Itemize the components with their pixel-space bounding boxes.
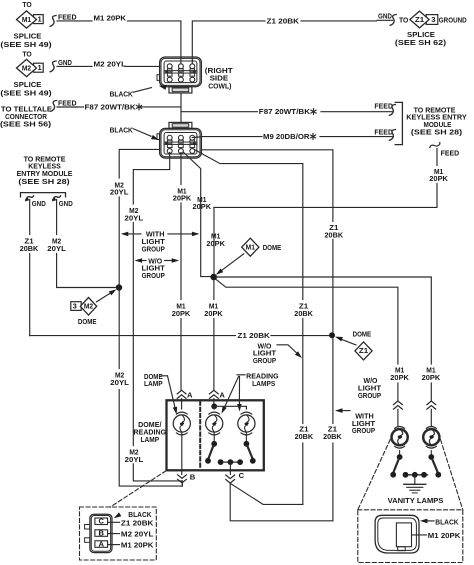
- 3-pin connector face: [90, 514, 112, 552]
- break A dome lamp: [177, 390, 186, 398]
- svg-text:LAMPS: LAMPS: [252, 379, 275, 388]
- wire Z1 cont2: [302, 319, 304, 424]
- svg-text:BLACK: BLACK: [435, 517, 459, 526]
- svg-text:GROUP: GROUP: [358, 391, 381, 400]
- wire M2 20YL pin to B: [133, 464, 182, 481]
- svg-text:20PK: 20PK: [193, 202, 212, 211]
- svg-text:DOME: DOME: [353, 329, 372, 338]
- wire M2 20YL conn2-left down: [119, 149, 159, 178]
- svg-text:20BK: 20BK: [323, 432, 342, 441]
- reference symbol M1 DOME: [242, 238, 259, 256]
- break C: [226, 475, 235, 483]
- svg-text:TO: TO: [399, 15, 408, 24]
- feed label M1 vanity: [430, 143, 440, 148]
- wire M2 20YL keyless-gnd down: [56, 200, 58, 235]
- wire M1 20PK into dome lamp: [180, 319, 182, 391]
- svg-text:M2 20YL: M2 20YL: [94, 59, 127, 68]
- svg-text:A: A: [98, 539, 104, 548]
- svg-text:DOME: DOME: [78, 317, 97, 326]
- svg-text:A: A: [219, 390, 225, 399]
- wire A into reading lamp: [213, 399, 215, 404]
- svg-text:(SEE SH 28): (SEE SH 28): [411, 128, 463, 137]
- wire Z1 cont: [332, 240, 334, 424]
- svg-text:LAMP: LAMP: [144, 379, 163, 388]
- svg-text:C: C: [98, 517, 104, 526]
- wire + break vanity right: [430, 383, 432, 401]
- wire C to Z1 right: [230, 483, 333, 521]
- label M1 20PK pin A: [108, 544, 120, 546]
- wire F87 20WT/BK* right: [181, 111, 258, 113]
- svg-text:20PK: 20PK: [390, 373, 409, 382]
- svg-text:BLACK: BLACK: [110, 89, 134, 98]
- svg-text:GND: GND: [58, 58, 72, 67]
- dashed pointer to connector detail: [110, 471, 166, 507]
- svg-text:GROUND: GROUND: [439, 15, 467, 24]
- break A reading lamps: [210, 390, 219, 398]
- wire Z1 20BK keyless-gnd down: [29, 200, 31, 235]
- label WITH LIGHT GROUP left: [123, 233, 141, 235]
- svg-text:20BK: 20BK: [20, 244, 39, 253]
- gnd label M2: [50, 61, 56, 72]
- svg-text:B: B: [98, 528, 104, 537]
- connector C1 6-pin (right side cowl): [160, 57, 202, 87]
- feed label M1: [50, 16, 56, 27]
- junction dot M2: [116, 284, 122, 290]
- svg-text:GROUP: GROUP: [352, 426, 375, 435]
- wire Z1 20BK top: [192, 21, 265, 64]
- wire F87 20WT/BK* left: [78, 106, 84, 108]
- junction dot M1: [210, 274, 217, 281]
- svg-text:M9 20DB/OR: M9 20DB/OR: [263, 132, 310, 141]
- pin A: [95, 541, 108, 548]
- svg-text:FEED: FEED: [374, 127, 393, 136]
- svg-text:20PK: 20PK: [173, 194, 192, 203]
- wire C to Z1 left: [230, 483, 303, 504]
- svg-text:FEED: FEED: [441, 148, 460, 157]
- svg-text:20BK: 20BK: [295, 432, 314, 441]
- svg-text:M1: M1: [22, 15, 32, 24]
- dome lamp L1: [173, 415, 190, 432]
- wire M1 20PK conn2 diag down: [183, 152, 210, 277]
- svg-text:20YL: 20YL: [125, 213, 144, 222]
- svg-text:3: 3: [431, 15, 435, 24]
- svg-text:(SEE SH 62): (SEE SH 62): [395, 38, 447, 47]
- dashed vanity enclosure: [358, 440, 390, 510]
- svg-text:A: A: [187, 390, 193, 399]
- vanity lamp right: [423, 429, 439, 445]
- vanity switch: [399, 451, 401, 455]
- svg-text:M1 20PK: M1 20PK: [94, 14, 127, 23]
- wire M9 20DB/OR*: [192, 136, 201, 139]
- svg-text:20YL: 20YL: [47, 244, 66, 253]
- svg-text:M1 20PK: M1 20PK: [428, 531, 461, 540]
- svg-text:BLACK: BLACK: [110, 125, 134, 134]
- svg-text:DOME: DOME: [263, 243, 282, 252]
- svg-text:LAMP: LAMP: [141, 435, 160, 444]
- wire L2 dot to lamp: [213, 406, 215, 409]
- svg-text:COWL): COWL): [208, 82, 232, 91]
- pin B: [95, 530, 108, 537]
- svg-text:F87 20WT/BK: F87 20WT/BK: [259, 107, 311, 116]
- svg-text:M1 20PK: M1 20PK: [121, 541, 154, 550]
- svg-text:20PK: 20PK: [172, 309, 191, 318]
- svg-text:20PK: 20PK: [422, 373, 441, 382]
- svg-text:FEED: FEED: [58, 12, 77, 21]
- ground symbol vanity: [414, 475, 416, 484]
- svg-text:(SEE SH 49): (SEE SH 49): [0, 88, 52, 97]
- svg-text:3: 3: [73, 301, 77, 310]
- svg-text:M2: M2: [84, 302, 93, 311]
- junction dot Z1: [329, 332, 335, 338]
- svg-text:20YL: 20YL: [110, 188, 129, 197]
- svg-text:Z1: Z1: [415, 15, 425, 24]
- svg-text:(SEE SH 49): (SEE SH 49): [0, 40, 52, 49]
- wire C from switch: [229, 462, 231, 474]
- svg-text:20PK: 20PK: [206, 239, 225, 248]
- wire Z1 20BK conn2 pin3: [195, 150, 303, 300]
- svg-text:TO: TO: [22, 0, 31, 9]
- terminal hook GND 2: [53, 196, 61, 200]
- svg-text:FEED: FEED: [58, 99, 77, 108]
- wire M2 20YL to B: [119, 390, 182, 487]
- dot above L2: [211, 403, 217, 409]
- svg-text:TO: TO: [22, 49, 31, 58]
- wire M1 20PK vanity left: [216, 279, 398, 364]
- wire M1 20PK conn2 straight down: [180, 153, 182, 185]
- reading lamp L3: [238, 415, 255, 432]
- label M2 20YL pin B: [108, 533, 120, 535]
- svg-text:M2: M2: [22, 63, 31, 72]
- label W/O LIGHT GROUP left: [137, 260, 147, 262]
- svg-text:Z1 20BK: Z1 20BK: [267, 16, 300, 25]
- connector detail box left: [80, 507, 157, 560]
- svg-text:FEED: FEED: [374, 102, 393, 111]
- svg-text:GND: GND: [59, 199, 73, 208]
- svg-text:20PK: 20PK: [204, 309, 223, 318]
- svg-text:20PK: 20PK: [429, 174, 448, 183]
- reference symbol 3|M2 DOME: [71, 302, 81, 311]
- vanity connector face: [375, 515, 419, 553]
- wire M2 20YL top: [75, 65, 92, 67]
- wire C1 to C2 (tab to tab): [180, 93, 182, 122]
- pin C: [95, 518, 108, 525]
- wire M1 20PK to reading lamps: [213, 280, 215, 299]
- wire M2 20YL conn2-pin down: [133, 153, 169, 205]
- vanity lamp left: [392, 429, 408, 445]
- switch contacts below lamps: [213, 432, 215, 441]
- svg-text:(SEE SH 28): (SEE SH 28): [18, 177, 70, 186]
- label Z1 20BK pin C: [108, 521, 120, 523]
- svg-text:M2 20YL: M2 20YL: [121, 530, 154, 539]
- svg-text:(SEE SH 56): (SEE SH 56): [0, 120, 52, 129]
- svg-text:GND: GND: [378, 12, 392, 21]
- svg-text:Z1: Z1: [359, 346, 369, 355]
- feed label telltale: [51, 101, 57, 112]
- label READING LAMPS: [237, 374, 245, 376]
- svg-text:M1: M1: [246, 243, 256, 252]
- bracket keyless left: [21, 193, 66, 197]
- terminal hook GND 1: [26, 196, 34, 200]
- svg-text:B: B: [190, 472, 196, 481]
- bracket keyless entry module right: [395, 102, 402, 144]
- wire B from dome lamp: [181, 432, 183, 474]
- svg-text:GROUP: GROUP: [253, 356, 276, 365]
- wire M1 20PK top: [78, 20, 93, 22]
- break B: [178, 475, 187, 483]
- svg-text:20YL: 20YL: [110, 378, 129, 387]
- connector C2 6-pin (black): [169, 122, 192, 128]
- wire + break vanity left: [397, 383, 399, 401]
- wire M1 20PK vanity right: [216, 277, 431, 364]
- svg-text:F87 20WT/BK: F87 20WT/BK: [85, 103, 137, 112]
- reading lamp L2: [206, 415, 223, 432]
- svg-text:20YL: 20YL: [125, 455, 144, 464]
- svg-text:GND: GND: [32, 199, 46, 208]
- svg-text:VANITY LAMPS: VANITY LAMPS: [388, 496, 444, 505]
- svg-text:GROUP: GROUP: [142, 271, 165, 280]
- svg-text:Z1 20BK: Z1 20BK: [121, 518, 154, 527]
- wire M1 20PK junction riser: [213, 207, 215, 273]
- wire M1 20PK from feed: [436, 149, 438, 166]
- wire Z1 20BK conn2 right-edge: [201, 150, 333, 222]
- svg-text:GROUP: GROUP: [142, 245, 165, 254]
- wire A into lamp: [181, 399, 183, 410]
- dome-reading lamp box: [167, 400, 264, 470]
- label WITH LIGHT GROUP right: [337, 410, 350, 412]
- svg-text:20BK: 20BK: [294, 309, 313, 318]
- wire L2 to L3 branch: [214, 406, 246, 409]
- wire Z1 20BK horizontal: [30, 335, 236, 337]
- svg-text:C: C: [239, 471, 245, 480]
- lamp box divider: [199, 402, 201, 470]
- svg-text:Z1 20BK: Z1 20BK: [237, 331, 270, 340]
- svg-text:20BK: 20BK: [325, 231, 344, 240]
